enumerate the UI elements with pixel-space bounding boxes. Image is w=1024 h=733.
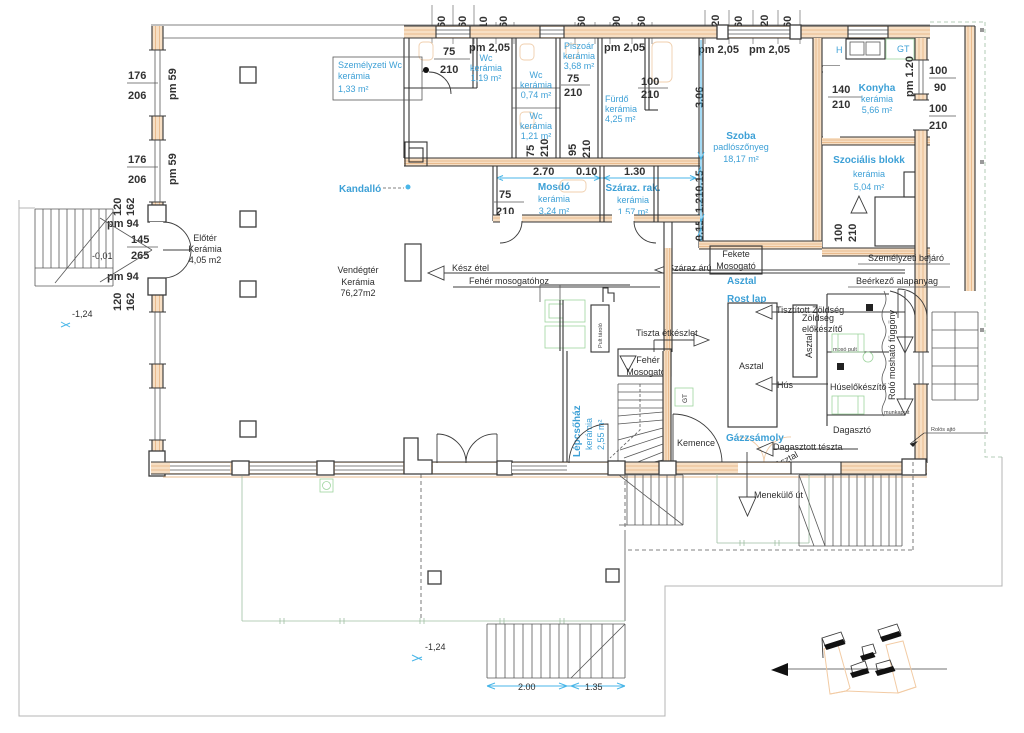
east porch strip	[965, 26, 975, 291]
green mark below wall	[320, 479, 333, 492]
svg-text:Wc: Wc	[530, 111, 543, 121]
parking arrow line	[788, 668, 947, 670]
svg-text:4,05 m2: 4,05 m2	[189, 255, 222, 265]
wc block left wall	[404, 38, 409, 158]
svg-text:pm 2,05: pm 2,05	[604, 42, 645, 54]
service block top wall	[540, 284, 630, 286]
tiszta étkészlet line	[654, 340, 694, 352]
cyan dim arrows row	[497, 176, 696, 181]
west entrance opening	[150, 222, 164, 278]
svg-text:3.06: 3.06	[694, 87, 706, 108]
dim line row cyan	[500, 177, 696, 179]
south corner pier east	[902, 459, 926, 475]
svg-text:4,25 m²: 4,25 m²	[605, 114, 636, 124]
svg-text:176: 176	[128, 70, 146, 82]
svg-text:90: 90	[934, 82, 946, 94]
leader to wc door	[422, 70, 424, 72]
lépcsőház west wall	[560, 300, 567, 465]
svg-text:Kész étel: Kész étel	[452, 263, 489, 273]
svg-text:162: 162	[125, 293, 137, 311]
svg-text:100: 100	[833, 224, 845, 242]
pult tároló cabinet	[591, 305, 609, 352]
svg-text:75: 75	[499, 189, 511, 201]
svg-text:210: 210	[581, 140, 593, 158]
svg-text:kerámia: kerámia	[605, 104, 637, 114]
green fixture zöldség	[832, 334, 873, 362]
menekülő door opening	[738, 463, 791, 473]
svg-text:kerámia: kerámia	[563, 51, 595, 61]
west post at door top	[148, 205, 166, 222]
terrace bottom edge	[242, 620, 625, 622]
svg-text:210: 210	[929, 120, 947, 132]
szoba right wall	[813, 38, 822, 248]
svg-text:-0,01: -0,01	[92, 251, 113, 261]
wc door arc 1	[429, 72, 451, 94]
szoba dim line cyan	[700, 40, 702, 241]
SE dashed boundary	[628, 459, 913, 550]
svg-text:Személyzeti Wc: Személyzeti Wc	[338, 60, 403, 70]
svg-text:-1,24: -1,24	[425, 642, 446, 652]
svg-text:75: 75	[567, 73, 579, 85]
property dashed line right	[985, 22, 1002, 457]
GT green square	[675, 388, 693, 406]
rolós ajtó line	[924, 432, 988, 434]
svg-text:Vendégtér: Vendégtér	[337, 265, 378, 275]
kandalló dot	[406, 185, 411, 190]
south window vendégtér 2	[250, 463, 316, 473]
szoba left wall	[699, 38, 703, 248]
appliance room west wall	[827, 294, 889, 426]
bottom stairs main	[487, 624, 625, 678]
cyan level flag west	[61, 322, 70, 327]
svg-text:Húselőkészítő: Húselőkészítő	[830, 382, 887, 392]
svg-text:kerámia: kerámia	[617, 195, 649, 205]
side table vendégtér	[405, 244, 421, 281]
wc partition 1	[473, 38, 477, 88]
east wall window 2	[913, 352, 929, 384]
svg-text:Előtér: Előtér	[193, 233, 217, 243]
svg-text:kerámia: kerámia	[853, 169, 885, 179]
south double door arcs	[437, 434, 497, 463]
roló triangle 1	[897, 337, 913, 353]
szoc inner room 1	[875, 197, 918, 246]
svg-text:Mosogató: Mosogató	[626, 367, 666, 377]
szoba cyan arrows	[698, 152, 704, 244]
hús arrowhead	[756, 377, 772, 391]
green fixtures service	[545, 300, 585, 348]
wc partition 3	[556, 38, 560, 158]
svg-text:Menekülő út: Menekülő út	[754, 490, 804, 500]
svg-text:Wc: Wc	[530, 70, 543, 80]
room label Wc 1,19	[470, 53, 502, 83]
chimney stub service	[603, 288, 614, 302]
svg-text:18,17 m²: 18,17 m²	[723, 154, 759, 164]
kemence door arc	[673, 414, 722, 463]
tisztított zöldség arrowhead	[756, 305, 772, 319]
room label Fürdő	[605, 94, 637, 124]
svg-text:kerámia: kerámia	[538, 194, 570, 204]
green fixture hús	[832, 396, 864, 414]
south porch lines	[163, 476, 927, 478]
survey dot 3	[980, 328, 984, 332]
car 2	[878, 624, 902, 642]
wc partition 2	[512, 38, 516, 158]
south post 5	[659, 461, 676, 475]
svg-text:Fehér: Fehér	[636, 355, 660, 365]
east wall door gap	[913, 100, 929, 130]
svg-text:206: 206	[128, 90, 146, 102]
svg-text:Kemence: Kemence	[677, 438, 715, 448]
south window 4	[512, 463, 567, 473]
svg-text:0,74 m²: 0,74 m²	[521, 90, 552, 100]
room label Konyha	[859, 83, 896, 115]
svg-text:kerámia: kerámia	[861, 94, 893, 104]
north pier szoba 1	[717, 25, 728, 39]
kitchen divider wall	[822, 137, 930, 145]
svg-text:Szoba: Szoba	[726, 131, 756, 142]
west dim line upper	[127, 82, 158, 84]
svg-text:3,68 m²: 3,68 m²	[564, 61, 595, 71]
kandalló leader	[383, 187, 404, 189]
svg-text:H: H	[836, 45, 843, 55]
svg-text:210: 210	[832, 99, 850, 111]
dim line fürdő	[638, 87, 668, 89]
svg-text:padlószőnyeg: padlószőnyeg	[713, 142, 769, 152]
lépcsőház east wall	[663, 351, 671, 465]
svg-text:kerámia: kerámia	[470, 63, 502, 73]
pillar 2	[240, 211, 256, 227]
label Fehér mosogató	[626, 355, 666, 377]
svg-text:Asztal: Asztal	[804, 333, 814, 358]
svg-text:Hús: Hús	[777, 380, 794, 390]
svg-text:145: 145	[131, 234, 149, 246]
svg-text:265: 265	[131, 250, 149, 262]
svg-text:1.210.15: 1.210.15	[694, 170, 706, 213]
north pier szoba 2	[790, 25, 801, 39]
west entry stairs	[35, 209, 113, 286]
west window 1	[149, 50, 166, 116]
south door lépcsőház	[567, 463, 608, 473]
west wall edges	[152, 26, 163, 451]
room label Mosdó	[538, 182, 570, 216]
svg-text:0.10: 0.10	[576, 166, 597, 178]
mosdó bottom wall	[493, 215, 700, 222]
svg-text:Mosogató: Mosogató	[716, 261, 756, 271]
survey dot 1	[980, 28, 984, 32]
south post 3	[497, 461, 512, 475]
shower triangle	[851, 196, 867, 213]
svg-text:2.70: 2.70	[533, 166, 554, 178]
svg-text:Zöldség: Zöldség	[802, 313, 834, 323]
svg-text:pm 94: pm 94	[107, 271, 140, 283]
fehér mosogató triangle	[620, 356, 636, 371]
terrace east dashed	[624, 474, 626, 531]
curtain wavy line	[882, 291, 886, 416]
svg-text:206: 206	[128, 174, 146, 186]
stair dashed walk line	[610, 384, 640, 458]
kitchen counter sink	[846, 39, 885, 59]
svg-text:210: 210	[440, 64, 458, 76]
west wall band	[152, 26, 163, 451]
west wall orange center lines	[156, 26, 160, 451]
kész étel arrowhead	[428, 266, 444, 280]
svg-text:Tiszta étkészlet: Tiszta étkészlet	[636, 328, 698, 338]
kész étel line	[444, 272, 905, 274]
east porch top cap	[930, 25, 975, 27]
dim line konyha	[828, 96, 862, 98]
east wall	[915, 38, 927, 463]
tiszta étkészlet arrowhead	[694, 334, 709, 346]
survey dot 2	[980, 160, 984, 164]
svg-text:Dagasztó: Dagasztó	[833, 425, 871, 435]
kandalló chimney block	[405, 142, 440, 166]
wc block bottom wall	[404, 158, 700, 166]
svg-text:1,19 m²: 1,19 m²	[471, 73, 502, 83]
svg-text:162: 162	[125, 198, 137, 216]
west window 4	[149, 388, 166, 440]
top dim ticks group B	[575, 22, 652, 44]
szem bejaro door arc	[898, 289, 927, 318]
west diagonal tick marks	[100, 218, 152, 282]
fürdő wall jog	[645, 109, 658, 111]
svg-text:5,66 m²: 5,66 m²	[862, 105, 893, 115]
label Zöldség előkészítő	[802, 313, 843, 334]
west dim line lower	[127, 166, 158, 168]
svg-text:kerámia: kerámia	[520, 80, 552, 90]
kitchen stove GT	[886, 39, 914, 59]
tisztított zöldség line	[772, 311, 905, 313]
parking lot outline orange	[824, 641, 916, 694]
dim line piszoar	[561, 84, 590, 86]
svg-text:Pult tároló: Pult tároló	[598, 323, 604, 348]
svg-text:GT: GT	[682, 394, 689, 403]
svg-text:5,04 m²: 5,04 m²	[854, 182, 885, 192]
svg-text:pm 59: pm 59	[167, 153, 179, 185]
terrace west edge	[241, 476, 243, 621]
svg-text:pm 2,05: pm 2,05	[749, 44, 790, 56]
svg-text:kerámia: kerámia	[520, 121, 552, 131]
svg-text:1,33 m²: 1,33 m²	[338, 84, 369, 94]
svg-text:-1,24: -1,24	[72, 309, 93, 319]
száraz door gap	[612, 214, 634, 223]
svg-text:1.35: 1.35	[585, 682, 603, 692]
svg-text:210: 210	[564, 87, 582, 99]
svg-text:Mosdó: Mosdó	[538, 182, 570, 193]
szoba bottom wall	[699, 241, 822, 249]
pillar 4	[240, 421, 256, 437]
terrace east vertical	[624, 531, 626, 621]
car 5	[875, 660, 896, 676]
svg-text:Kerámia: Kerámia	[188, 244, 222, 254]
north window b	[540, 26, 564, 38]
south closed door	[791, 462, 841, 474]
terrace dashed mid	[420, 474, 422, 621]
service upper walls	[540, 285, 560, 351]
south double door opening	[433, 463, 497, 473]
north wall orange lines	[404, 30, 930, 34]
west post at door bottom	[148, 278, 166, 295]
south post 2	[317, 461, 334, 475]
eave dashed line top-right	[930, 21, 985, 23]
west window 2	[149, 140, 166, 202]
bottom dim arrows	[487, 683, 625, 689]
svg-text:Személyzeti bejáró: Személyzeti bejáró	[868, 253, 944, 263]
szem wc bottom wall	[404, 87, 477, 89]
central work table	[728, 303, 777, 427]
wall below mosdó to service	[664, 222, 672, 248]
dim line mosdó	[494, 201, 524, 203]
dagasztott tészta arrowhead	[757, 442, 773, 456]
dim line wc1	[434, 58, 470, 60]
száraz árú arrowhead	[655, 264, 671, 276]
top dim ticks group A	[432, 5, 514, 44]
SE escape stairs	[799, 475, 902, 546]
roló door arc top	[890, 291, 915, 316]
wc door dot	[423, 67, 429, 73]
mosdó left wall	[493, 166, 497, 221]
underline bejáró	[858, 263, 950, 265]
svg-text:Beérkező alapanyag: Beérkező alapanyag	[856, 276, 938, 286]
west corner post bottom	[149, 451, 165, 476]
menekülő door arcs faint	[738, 437, 791, 463]
svg-text:95: 95	[567, 144, 579, 156]
svg-text:210: 210	[847, 224, 859, 242]
south wall band	[151, 462, 927, 474]
room label Szociális blokk	[833, 155, 905, 192]
svg-text:kerámia: kerámia	[584, 418, 594, 450]
svg-text:75: 75	[525, 145, 537, 157]
black square marker 2	[837, 363, 844, 370]
svg-text:Fekete: Fekete	[722, 249, 750, 259]
svg-text:Fürdő: Fürdő	[605, 94, 629, 104]
svg-text:176: 176	[128, 154, 146, 166]
menekülő vertical line	[746, 452, 748, 497]
north wall band	[404, 26, 930, 38]
svg-text:Lépcsőház: Lépcsőház	[572, 405, 583, 457]
száraz árú line	[671, 269, 905, 271]
svg-text:3,24 m²: 3,24 m²	[539, 206, 570, 216]
svg-text:Kerámia: Kerámia	[341, 277, 375, 287]
svg-text:Kandalló: Kandalló	[339, 184, 381, 195]
pillar 1	[240, 67, 256, 83]
svg-text:210: 210	[539, 139, 551, 157]
svg-text:210: 210	[641, 89, 659, 101]
label box Személyzeti Wc	[333, 57, 422, 100]
rolós ajtó arrow	[910, 433, 924, 444]
svg-text:Wc: Wc	[480, 53, 493, 63]
wc partition 5	[645, 38, 649, 110]
drawing frame left	[19, 200, 1002, 716]
száraz rak right wall	[654, 166, 658, 222]
wc partition mid shelf	[512, 88, 560, 108]
wc partition 4	[598, 38, 602, 158]
south pier T	[404, 438, 432, 474]
north wall edges	[404, 26, 930, 38]
parking arrow head	[771, 663, 788, 676]
room label Száraz rak	[605, 183, 660, 217]
szoc bottom wall	[822, 248, 930, 256]
svg-text:100: 100	[641, 76, 659, 88]
room label Wc 0,74	[520, 70, 552, 100]
pillar 3	[240, 281, 256, 297]
south window vendégtér 1	[170, 463, 230, 473]
roló triangle 2	[897, 399, 913, 415]
svg-text:Rolós ajtó: Rolós ajtó	[931, 427, 955, 433]
svg-text:előkészítő: előkészítő	[802, 324, 843, 334]
svg-text:Fehér mosogatóhoz: Fehér mosogatóhoz	[469, 276, 550, 286]
west dim line mid	[127, 246, 158, 248]
room label Piszoár	[563, 41, 595, 71]
room label Elotér	[188, 233, 222, 265]
svg-text:75: 75	[443, 46, 455, 58]
száraz rak left wall	[600, 166, 604, 222]
roló vertical line	[904, 291, 906, 399]
svg-text:pm 59: pm 59	[167, 68, 179, 100]
svg-text:120: 120	[112, 293, 124, 311]
north window c szoba left	[727, 26, 791, 38]
svg-text:76,27m2: 76,27m2	[340, 288, 375, 298]
svg-text:Száraz árú: Száraz árú	[668, 263, 712, 273]
fehér mosogatóhoz line	[453, 286, 660, 288]
menekülő triangle	[739, 497, 756, 516]
svg-text:Roló mosható függöny: Roló mosható függöny	[887, 309, 897, 400]
kitchen west wall	[822, 66, 840, 72]
svg-text:kerámia: kerámia	[338, 71, 370, 81]
bottom stairs dim line	[487, 685, 625, 687]
terrace post 2	[606, 569, 619, 582]
svg-text:100: 100	[929, 65, 947, 77]
mosdó fixtures	[560, 180, 586, 192]
svg-text:120: 120	[112, 198, 124, 216]
wc fixture 4 piszoar	[566, 44, 578, 58]
frame top stub	[19, 207, 35, 209]
external stair east	[932, 312, 978, 400]
szoc inner room 2	[904, 172, 920, 197]
svg-text:Dagasztott tészta: Dagasztott tészta	[773, 442, 843, 452]
svg-text:pm 94: pm 94	[107, 218, 140, 230]
corridor wall vertical	[664, 248, 672, 352]
wc fixture 1	[419, 42, 433, 60]
east wall window 1	[913, 60, 929, 94]
narrow table	[793, 305, 817, 377]
dry store door arc	[634, 221, 656, 243]
black square marker 1	[866, 304, 873, 311]
hús line	[772, 383, 828, 385]
north window d kitchen	[848, 26, 888, 38]
menekülő deck	[717, 474, 809, 546]
roof overhang line north	[151, 24, 930, 26]
svg-text:Asztal: Asztal	[739, 361, 764, 371]
svg-text:Száraz. rak.: Száraz. rak.	[605, 183, 660, 194]
entrance double door arcs	[163, 222, 191, 278]
south door arc lépcsőház	[569, 424, 608, 463]
svg-text:Piszoár: Piszoár	[564, 41, 594, 51]
svg-text:pm 2,05: pm 2,05	[698, 44, 739, 56]
svg-text:GT: GT	[897, 44, 910, 54]
interior stair treads	[618, 384, 663, 465]
svg-text:2.00: 2.00	[518, 682, 536, 692]
mosdó door arc	[500, 221, 522, 243]
appliance partition 1	[827, 351, 889, 353]
car 1	[822, 632, 846, 658]
north window a	[436, 26, 470, 38]
east dim line 1	[927, 77, 956, 79]
north inner line left part	[163, 37, 404, 39]
top dim ticks group C	[705, 10, 800, 44]
label Fekete	[716, 249, 756, 271]
svg-text:1.30: 1.30	[624, 166, 645, 178]
mosdó door gap	[500, 214, 522, 223]
